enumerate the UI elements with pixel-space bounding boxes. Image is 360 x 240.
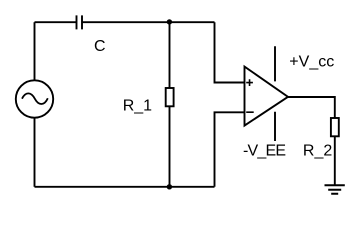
svg-text:C: C [94, 38, 106, 55]
svg-text:-V_EE: -V_EE [243, 142, 285, 159]
svg-text:R_2: R_2 [303, 143, 332, 160]
svg-text:+V_cc: +V_cc [289, 54, 334, 71]
svg-text:R_1: R_1 [123, 98, 152, 115]
